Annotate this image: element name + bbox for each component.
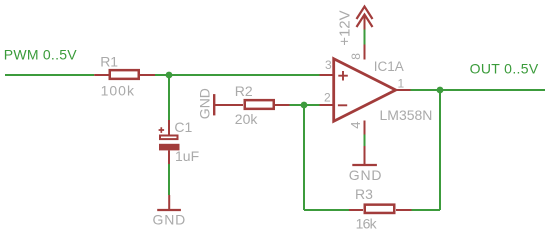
junction node at R1/C1 [166,72,173,79]
resistor R3 [349,186,412,232]
svg-text:1uF: 1uF [175,148,199,164]
op-amp U1 pin2 lead [320,104,335,106]
ground below op-amp [349,146,383,183]
resistor R1 [94,54,155,99]
op-amp output pin 1 lead [396,89,411,91]
svg-text:8: 8 [349,53,363,60]
svg-text:OUT 0..5V: OUT 0..5V [470,61,539,77]
junction node at R2/feedback [301,102,308,109]
svg-text:+12V: +12V [337,10,354,45]
capacitor C1 [159,119,200,164]
wire feedback right vertical [439,90,441,210]
svg-text:4: 4 [348,122,363,129]
wire feedback bottom left [304,209,349,211]
op-amp pin 8 lead [364,45,366,60]
svg-text:100k: 100k [101,83,135,99]
svg-text:3: 3 [325,58,332,72]
svg-text:1: 1 [398,77,405,91]
ground left of R2 [197,88,229,119]
op-amp minus input marker [338,104,347,106]
svg-text:IC1A: IC1A [374,59,404,74]
supply +12V symbol [337,7,373,46]
junction node at output/feedback [437,87,444,94]
svg-text:C1: C1 [174,119,192,135]
svg-text:LM358N: LM358N [380,107,433,123]
wire feedback bottom right [412,209,441,211]
svg-text:R2: R2 [235,83,253,99]
wire C1 to ground [168,164,170,195]
svg-text:GND: GND [197,88,213,119]
wire R2 to op-amp pin2 [290,104,320,106]
wire junction down to feedback row [303,105,305,210]
op-amp pin 4 lead [364,121,366,135]
wire junction down to C1 [168,75,170,120]
op-amp U1 pin3 lead [320,74,335,76]
svg-text:16k: 16k [356,216,378,232]
svg-text:R3: R3 [355,186,373,202]
svg-text:R1: R1 [100,54,118,70]
resistor R2 [228,83,290,127]
svg-text:2: 2 [324,91,331,105]
wire pin4 to ground [364,135,366,147]
op-amp IC1A triangle [334,59,396,121]
wire +12V to pin8 [364,30,366,45]
op-amp plus input marker [338,71,348,81]
wire output net [411,89,546,91]
svg-text:GND: GND [349,167,383,183]
wire R1 to op-amp pin3 [155,74,320,76]
wire PWM input net [5,74,94,76]
svg-text:20k: 20k [235,111,259,127]
ground below C1 [153,195,187,228]
svg-text:GND: GND [153,212,187,228]
svg-text:PWM 0..5V: PWM 0..5V [4,47,77,63]
